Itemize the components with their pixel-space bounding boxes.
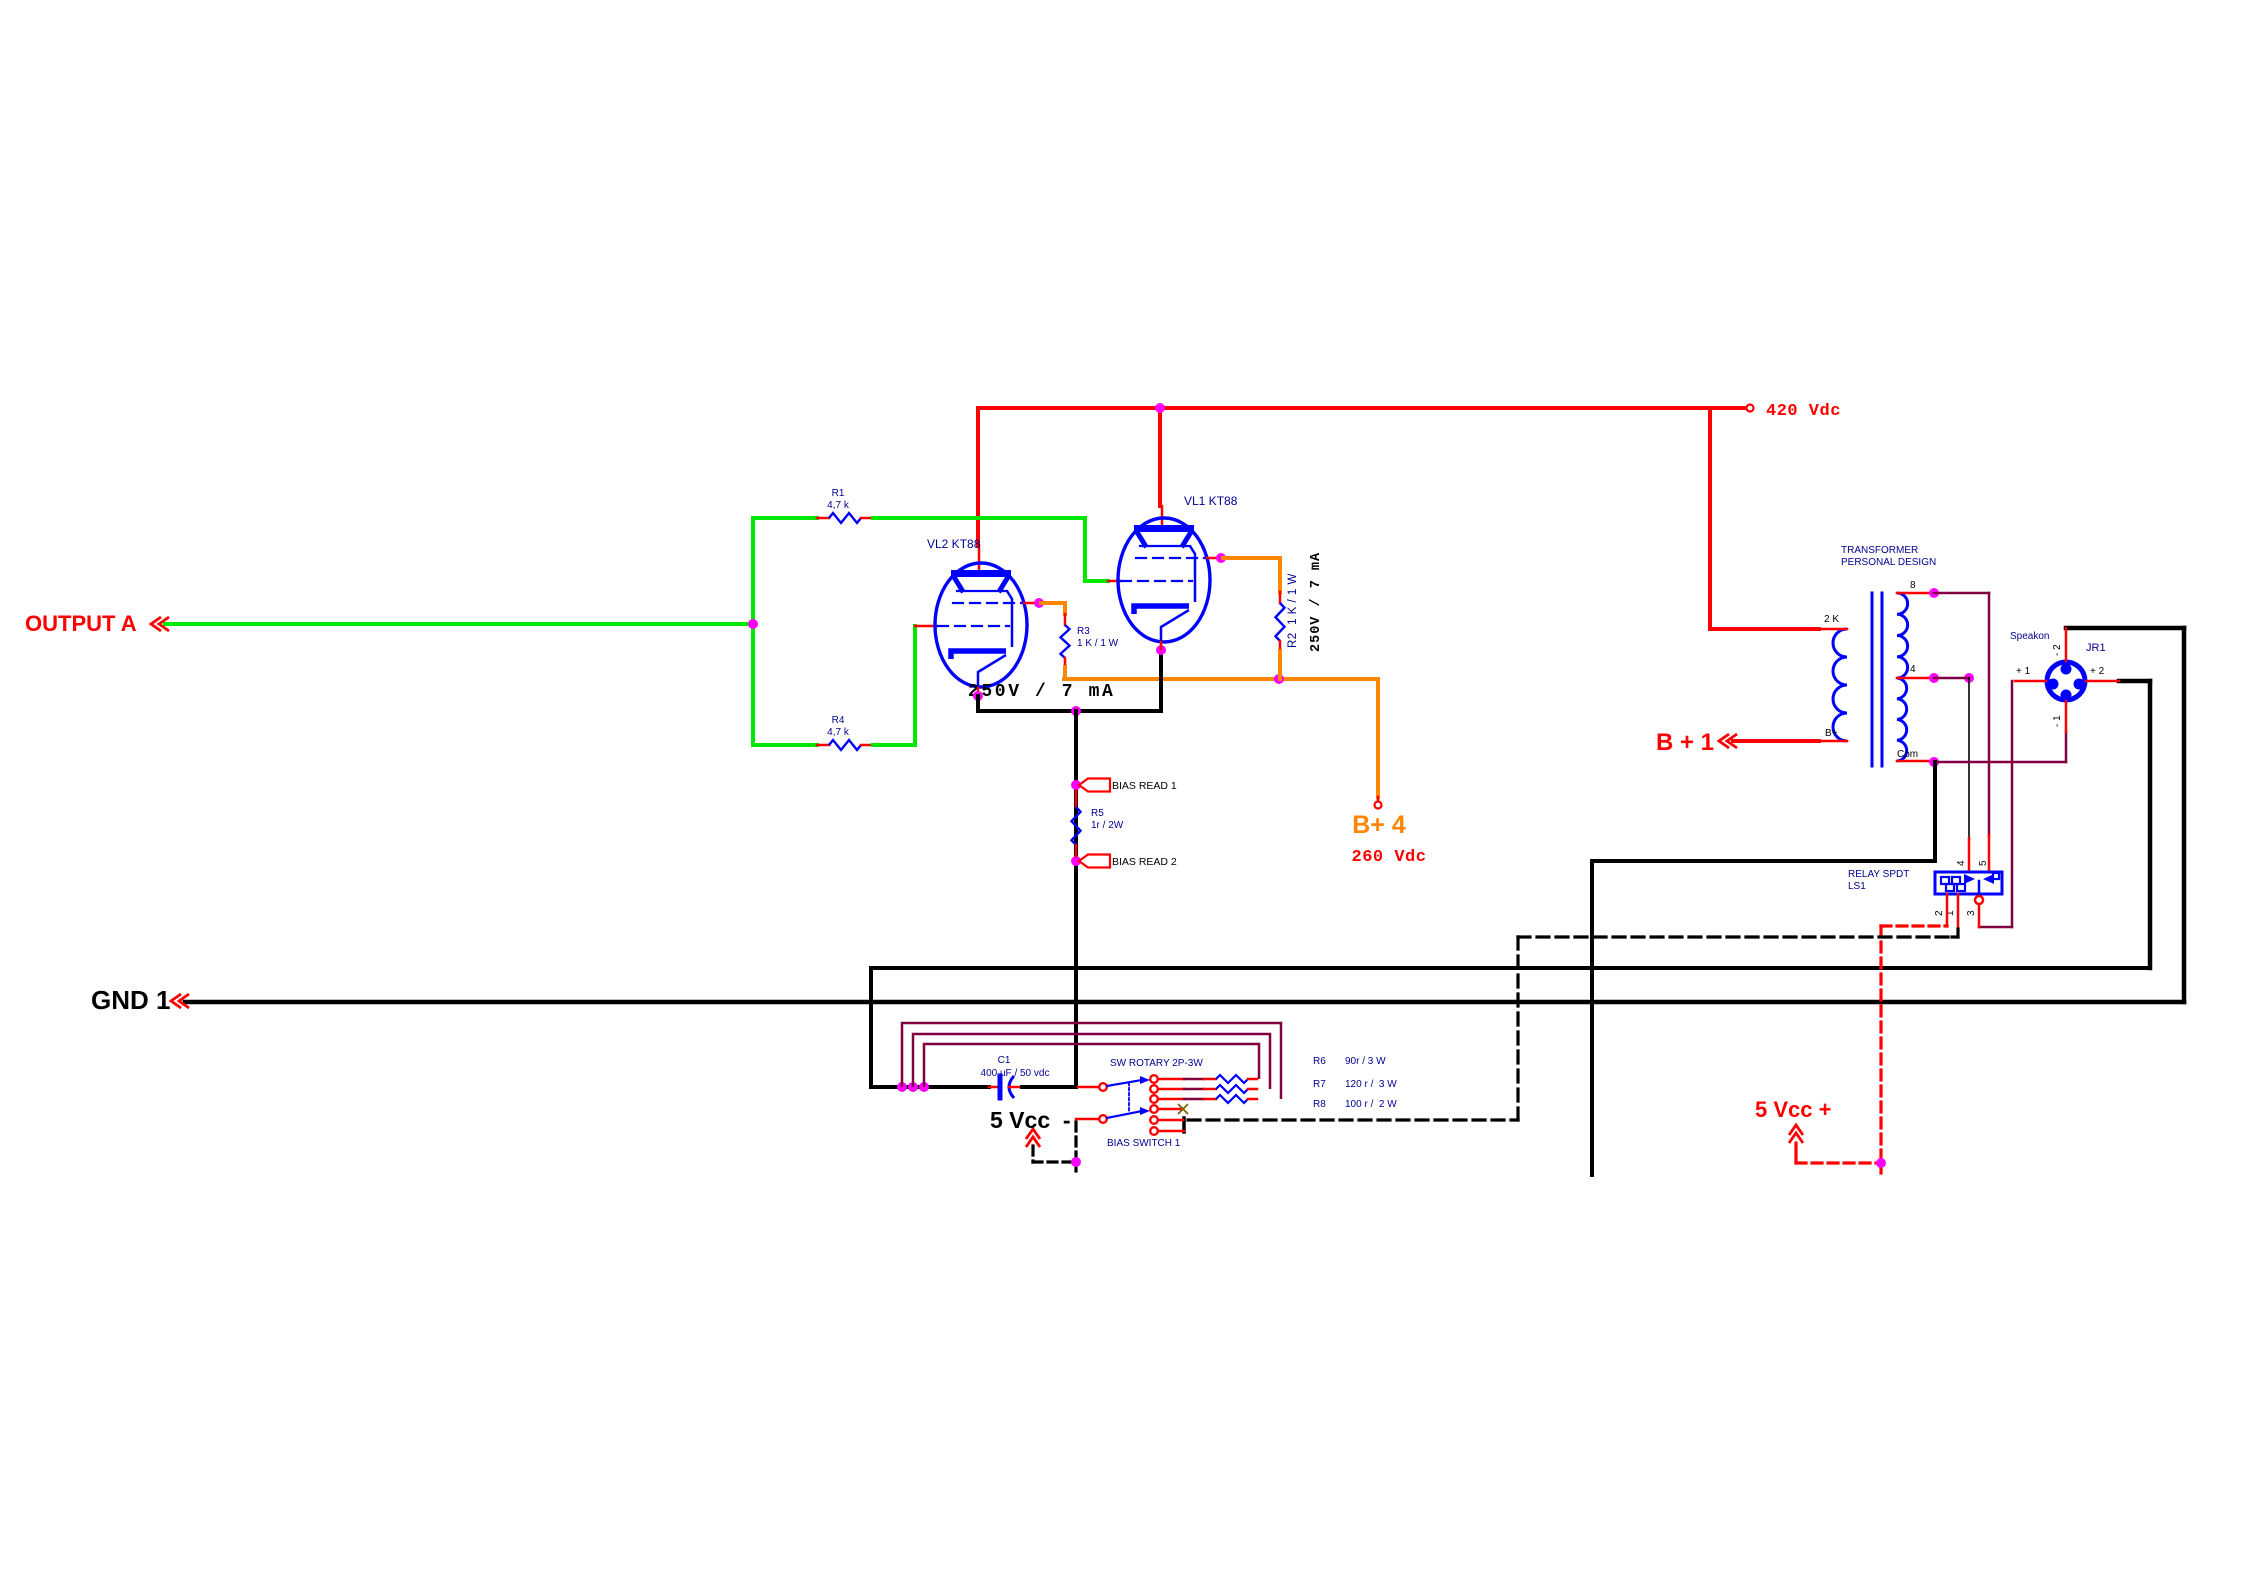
svg-text:90r / 3 W: 90r / 3 W [1345,1056,1386,1067]
svg-text:RELAY SPDT: RELAY SPDT [1848,869,1909,880]
svg-text:Speakon: Speakon [2010,631,2049,642]
svg-text:4,7 k: 4,7 k [827,500,850,511]
svg-text:260 Vdc: 260 Vdc [1352,848,1427,867]
svg-text:BIAS READ 2: BIAS READ 2 [1112,856,1177,868]
svg-text:TRANSFORMER: TRANSFORMER [1841,545,1918,556]
svg-text:+ 2: + 2 [2090,666,2105,677]
svg-text:5 Vcc -: 5 Vcc - [990,1107,1071,1133]
svg-text:R1: R1 [832,488,845,499]
svg-text:VL2 KT88: VL2 KT88 [927,537,981,551]
svg-text:250V / 7 mA: 250V / 7 mA [968,682,1115,702]
svg-text:120 r / 3 W: 120 r / 3 W [1345,1079,1397,1090]
svg-text:R7: R7 [1313,1079,1326,1090]
svg-text:R6: R6 [1313,1056,1326,1067]
svg-text:5 Vcc +: 5 Vcc + [1755,1097,1831,1122]
svg-text:LS1: LS1 [1848,881,1866,892]
svg-text:BIAS READ 1: BIAS READ 1 [1112,780,1177,792]
svg-text:C1: C1 [998,1055,1011,1066]
svg-text:8: 8 [1910,580,1916,591]
svg-text:OUTPUT A: OUTPUT A [25,611,137,636]
svg-text:1 K / 1 W: 1 K / 1 W [1077,638,1119,649]
svg-text:B+: B+ [1825,728,1838,739]
svg-text:4: 4 [1956,860,1967,866]
svg-text:R2 1 K / 1 W: R2 1 K / 1 W [1287,573,1299,648]
svg-text:PERSONAL DESIGN: PERSONAL DESIGN [1841,557,1936,568]
svg-text:4,7 k: 4,7 k [827,727,850,738]
svg-text:3: 3 [1966,910,1977,916]
svg-text:+ 1: + 1 [2016,666,2031,677]
svg-text:400 uF / 50 vdc: 400 uF / 50 vdc [981,1068,1050,1079]
svg-text:2 K: 2 K [1824,614,1839,625]
svg-text:R3: R3 [1077,626,1090,637]
svg-text:- 1: - 1 [2052,715,2063,727]
svg-text:VL1 KT88: VL1 KT88 [1184,494,1238,508]
svg-text:420 Vdc: 420 Vdc [1766,402,1841,421]
svg-text:250V / 7 mA: 250V / 7 mA [1309,552,1324,652]
svg-text:JR1: JR1 [2086,642,2106,654]
svg-text:5: 5 [1978,860,1989,866]
svg-text:100 r / 2 W: 100 r / 2 W [1345,1099,1397,1110]
svg-text:R8: R8 [1313,1099,1326,1110]
svg-text:B+ 4: B+ 4 [1352,811,1406,839]
svg-text:R5: R5 [1091,808,1104,819]
svg-text:B + 1: B + 1 [1656,729,1714,756]
svg-text:2: 2 [1934,910,1945,916]
svg-text:SW ROTARY 2P-3W: SW ROTARY 2P-3W [1110,1058,1203,1069]
svg-text:BIAS SWITCH 1: BIAS SWITCH 1 [1107,1138,1181,1149]
svg-text:Com: Com [1897,749,1918,760]
svg-text:R4: R4 [832,715,845,726]
svg-text:GND 1: GND 1 [91,985,170,1015]
svg-text:- 2: - 2 [2052,644,2063,656]
svg-text:1r / 2W: 1r / 2W [1091,820,1124,831]
svg-text:4: 4 [1910,664,1916,675]
